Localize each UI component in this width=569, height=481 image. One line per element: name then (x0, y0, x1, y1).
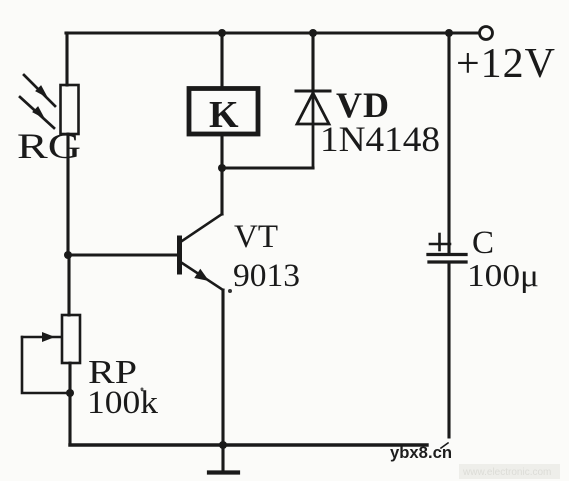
svg-text:+12V: +12V (456, 41, 556, 87)
scan speck near 9013 (228, 289, 232, 293)
label VD (336, 85, 390, 125)
wire top rail (66, 31, 479, 34)
wire left rail lower (base node to RP) (67, 255, 70, 315)
wire junction to diode bottom (222, 166, 313, 169)
node RP bottom junction (66, 389, 74, 397)
terminal +12V (480, 27, 493, 40)
node collector junction (218, 164, 226, 172)
label 100k (87, 385, 159, 421)
label RP (88, 354, 137, 391)
wire left rail upper (top rail to RG) (65, 33, 68, 85)
ground (209, 445, 238, 473)
relay K (189, 89, 258, 135)
node base junction (64, 251, 72, 259)
wire capacitor top drop (447, 33, 450, 252)
node top right junction (445, 29, 453, 37)
label RG (17, 126, 81, 166)
node emitter bottom junction (219, 441, 227, 449)
label 9013 (233, 258, 300, 294)
wire base (69, 253, 179, 256)
wire relay top drop (220, 33, 223, 86)
label VT (234, 219, 278, 255)
svg-text:RG: RG (17, 126, 81, 166)
svg-text:100k: 100k (87, 385, 159, 421)
svg-text:www.electronic.com: www.electronic.com (462, 467, 551, 478)
svg-text:VT: VT (234, 219, 278, 255)
photoresistor RG (20, 75, 79, 134)
scan speck near 100k (141, 388, 144, 391)
label +12V (456, 41, 556, 87)
svg-text:100μ: 100μ (467, 257, 539, 293)
svg-text:K: K (209, 94, 239, 136)
label 100u (467, 257, 539, 293)
wire relay bottom drop (220, 136, 223, 168)
wire capacitor bottom drop (447, 264, 450, 437)
svg-text:1N4148: 1N4148 (320, 119, 440, 159)
wire left rail bottom (RP to bottom rail) (68, 363, 71, 445)
scan mark over cn (441, 443, 448, 448)
svg-text:9013: 9013 (233, 258, 300, 294)
watermark ybx8.cn (390, 444, 452, 462)
wire left rail middle (RG to base node) (66, 134, 69, 255)
node relay top (218, 29, 226, 37)
svg-text:ybx8.cn: ybx8.cn (390, 444, 452, 462)
capacitor C (428, 234, 466, 262)
label 1N4148 (320, 119, 440, 159)
wire emitter drop (221, 290, 224, 445)
node diode top (309, 29, 317, 37)
wire bottom rail (70, 443, 427, 446)
label K (209, 94, 239, 136)
svg-text:C: C (472, 225, 494, 261)
potentiometer RP (22, 315, 80, 393)
label C (472, 225, 494, 261)
transistor VT (180, 168, 224, 290)
diode VD (296, 91, 330, 124)
wire diode top drop (311, 33, 314, 92)
watermark gray box (459, 464, 560, 479)
wire diode bottom drop (312, 92, 315, 168)
